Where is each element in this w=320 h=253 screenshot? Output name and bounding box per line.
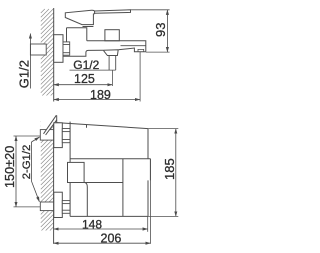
wall pocket (inlet socket in wall) [30,44,46,55]
dim 185: bottom extension [148,215,178,217]
wall face line (upper) [53,8,55,102]
fixture right edge [148,129,150,217]
handle stub [56,115,58,122]
fixture bottom edge [70,215,148,217]
svg-text:125: 125 [74,72,95,86]
svg-text:189: 189 [90,88,111,102]
svg-text:185: 185 [162,158,177,180]
top inlet nut [62,129,70,143]
label 2-G1/2: leaders [31,137,39,202]
spout bar [87,41,146,52]
svg-text:150±20: 150±20 [3,146,17,188]
dim 189: extension line from aerator [139,52,141,102]
handle lever (bottom view, diagonal bar) [43,115,57,135]
dim 150±20: extension lines [14,136,41,207]
shower outlet pipe [109,56,116,71]
label G1/2 (left, wall connection) leader [29,34,31,89]
label 2-G1/2: underline [30,142,32,181]
wall hatching (lower band) [41,118,54,230]
svg-text:G1/2: G1/2 [17,60,32,88]
middle box on body left edge [68,162,85,182]
svg-text:206: 206 [101,232,122,246]
top inlet escutcheon flange [54,123,63,148]
shower outlet nub under spout [103,50,118,56]
bottom inlet nut [62,201,70,214]
svg-text:148: 148 [82,218,102,232]
bottom inlet pocket in wall [40,202,53,211]
dim 93: dimension line [166,10,168,52]
wall hatching (upper band) [41,9,54,96]
S-union nut [63,42,70,55]
faucet body (side view) [63,28,103,56]
dim 189: dimension line [54,99,140,101]
svg-text:93: 93 [153,23,168,37]
fixture outline: sloped top edge [57,123,148,129]
dim 206: extension line [150,159,152,244]
top inlet pocket in wall [40,130,53,141]
handle lever [95,10,131,13]
dim 148: dimension line [54,228,148,230]
handle head [65,10,94,26]
body left edge [69,122,71,217]
dim 185: dimension line [175,129,177,217]
label G1/2 underline / leader to pipe [70,69,116,71]
dim 150±20: dimension line [15,136,17,207]
diverter knob on spout [105,30,119,41]
wall face line (lower) [53,119,55,244]
white mask above lever [41,108,57,134]
bottom inlet escutcheon flange [54,192,63,217]
dim 206: dimension line [54,242,151,244]
dim 185: top extension [148,128,178,130]
escutcheon flange (side view) [54,35,63,63]
spout internal lines (bottom view) [70,125,150,217]
dim 125: dimension line [54,84,113,86]
dim 93: extension lines [131,10,170,52]
dim 125: extension line from outlet pipe [111,70,113,86]
dim 148: extension line [147,216,149,231]
